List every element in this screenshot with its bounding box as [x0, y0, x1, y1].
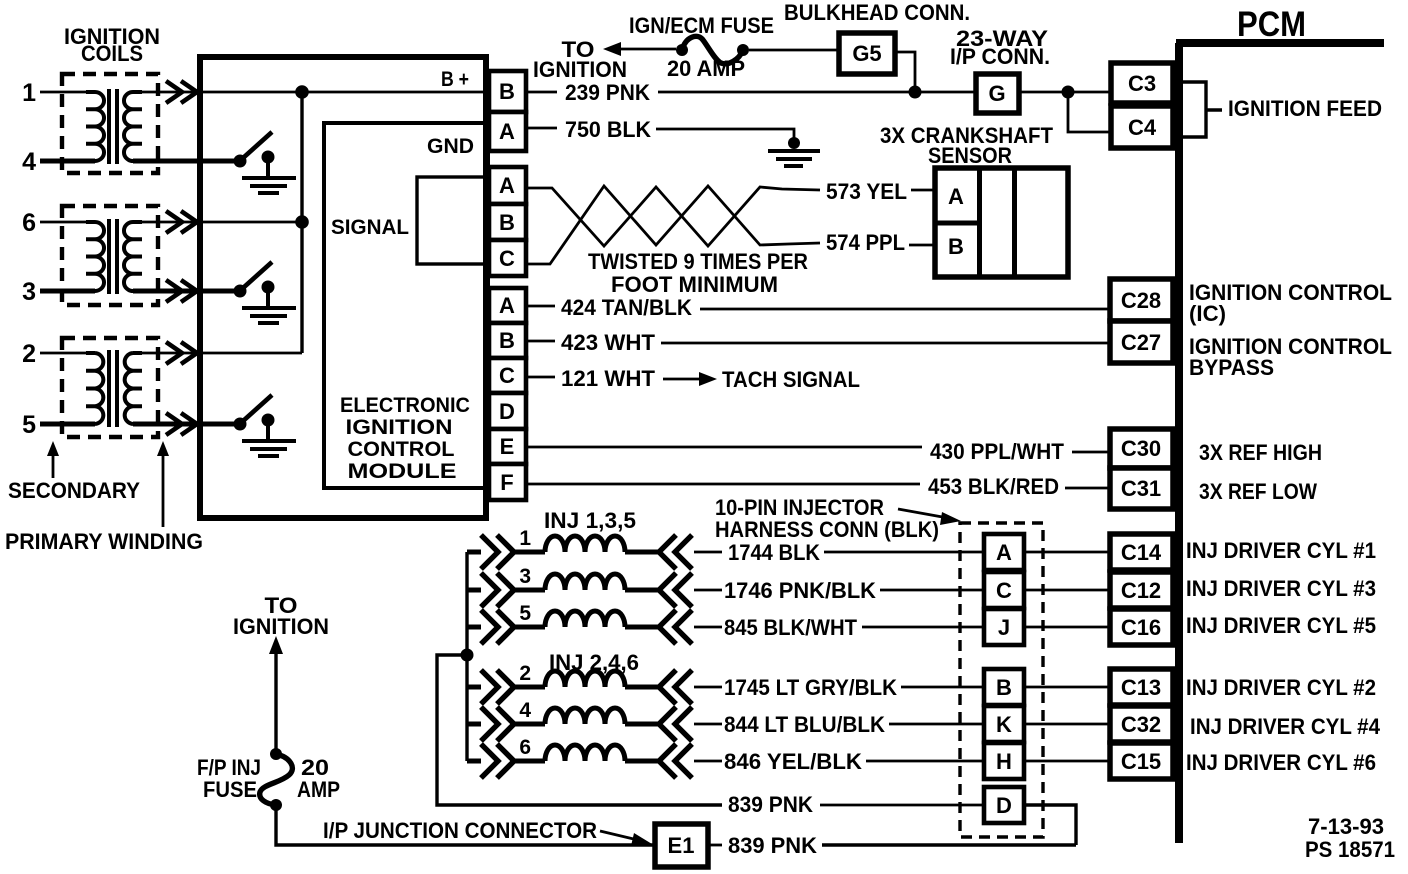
junction dot C3/C4 branch	[1062, 86, 1075, 99]
wire 423 WHT	[526, 341, 1110, 343]
wire 1744 BLK to pin A	[824, 551, 984, 554]
fuse F1 IGN/ECM 20 AMP	[676, 36, 749, 63]
label PRIMARY WINDING with arrow	[5, 441, 203, 554]
twisted pair wire A (573)	[526, 187, 820, 246]
wire 1745 to pin B	[901, 686, 984, 689]
signal sub-box	[417, 177, 488, 264]
harness pin D	[984, 787, 1024, 823]
pin E	[489, 429, 526, 464]
svg-text:INJ DRIVER CYL #5: INJ DRIVER CYL #5	[1186, 613, 1376, 638]
wire coil3 row5	[40, 422, 238, 427]
wire pin B to C13	[1024, 686, 1110, 689]
wire coil2 row3	[40, 289, 238, 294]
injector INJ6	[467, 744, 722, 778]
label TWISTED 9 TIMES PER FOOT MINIMUM	[588, 249, 808, 297]
svg-text:HARNESS CONN (BLK): HARNESS CONN (BLK)	[715, 517, 939, 542]
svg-text:C28: C28	[1121, 288, 1161, 313]
svg-text:7-13-93: 7-13-93	[1308, 814, 1384, 839]
svg-text:3: 3	[22, 278, 36, 306]
svg-text:ELECTRONIC: ELECTRONIC	[340, 394, 470, 417]
label TO IGNITION (top)	[533, 37, 627, 82]
svg-text:C16: C16	[1121, 615, 1161, 640]
wire branch to C4	[1068, 92, 1111, 132]
wire G to C3	[1019, 91, 1111, 94]
svg-text:1744 BLK: 1744 BLK	[728, 540, 820, 565]
terminal C3	[1111, 63, 1173, 103]
svg-text:423 WHT: 423 WHT	[561, 330, 656, 355]
svg-text:SIGNAL: SIGNAL	[331, 216, 409, 239]
wire B+ bus vertical	[300, 92, 303, 353]
svg-text:573 YEL: 573 YEL	[826, 179, 907, 204]
ignition feed bracket	[1175, 82, 1222, 137]
injector INJ5	[467, 610, 722, 644]
svg-text:C27: C27	[1121, 330, 1161, 355]
wire pin D to E1 riser	[822, 805, 1076, 845]
svg-text:839 PNK: 839 PNK	[728, 833, 817, 858]
svg-text:C31: C31	[1121, 476, 1161, 501]
wire 839 PNK to pin D	[820, 804, 984, 807]
wire pin K to C32	[1024, 723, 1110, 726]
chevron row1	[166, 81, 197, 103]
svg-text:1746 PNK/BLK: 1746 PNK/BLK	[724, 578, 876, 603]
injector INJ4	[467, 707, 722, 741]
wire pin C to C12	[1024, 589, 1110, 592]
svg-text:3: 3	[519, 565, 531, 588]
terminal C32	[1110, 706, 1173, 742]
terminal C31	[1110, 468, 1173, 509]
twisted pair wire C (574)	[526, 186, 820, 264]
terminal C15	[1110, 743, 1173, 779]
svg-text:3X REF LOW: 3X REF LOW	[1199, 479, 1317, 504]
pin B (B+)	[489, 71, 526, 112]
harness pin C	[984, 572, 1024, 608]
wire pin A to C14	[1024, 551, 1110, 554]
injector INJ1	[467, 535, 722, 569]
fuse F2 F/P INJ 20 AMP	[260, 748, 293, 811]
svg-text:C15: C15	[1121, 749, 1161, 774]
terminal C4	[1111, 106, 1173, 148]
svg-text:CONTROL: CONTROL	[348, 438, 455, 461]
ground S1	[242, 178, 296, 193]
svg-text:C14: C14	[1121, 540, 1162, 565]
pin C (121)	[489, 358, 526, 393]
svg-text:B: B	[996, 675, 1012, 700]
svg-text:IGNITION FEED: IGNITION FEED	[1228, 96, 1382, 121]
svg-text:MODULE: MODULE	[348, 460, 457, 483]
svg-text:C4: C4	[1128, 115, 1157, 140]
svg-text:2: 2	[519, 662, 531, 685]
svg-text:I/P JUNCTION CONNECTOR: I/P JUNCTION CONNECTOR	[323, 818, 597, 843]
chevron row3	[166, 280, 197, 302]
svg-text:C: C	[499, 363, 515, 388]
wire 239 PNK	[526, 91, 976, 94]
wire 845 to pin J	[862, 626, 984, 629]
crankshaft sensor box	[935, 168, 1068, 277]
wire pin H to C15	[1024, 760, 1110, 763]
svg-text:C12: C12	[1121, 578, 1161, 603]
svg-text:4: 4	[22, 148, 36, 176]
label 20 AMP (F/P)	[297, 755, 340, 802]
injector INJ2	[467, 670, 722, 704]
svg-text:C: C	[996, 578, 1012, 603]
junction dot B+ row1	[295, 85, 309, 99]
svg-text:SECONDARY: SECONDARY	[8, 478, 140, 503]
svg-text:A: A	[499, 119, 515, 144]
chevron row5	[166, 413, 197, 435]
arrow to E1	[600, 831, 652, 846]
label IGNITION COILS	[64, 24, 160, 66]
terminal C30	[1110, 429, 1173, 468]
pin A (GND)	[489, 112, 526, 151]
svg-text:B: B	[499, 210, 515, 235]
svg-text:A: A	[996, 540, 1012, 565]
transformer T3 (coils 2/5)	[62, 338, 158, 437]
svg-text:INJ DRIVER CYL #4: INJ DRIVER CYL #4	[1190, 714, 1381, 739]
svg-text:GND: GND	[427, 135, 474, 158]
harness pin A	[984, 534, 1024, 570]
ground S3	[242, 441, 296, 456]
svg-text:C3: C3	[1128, 71, 1156, 96]
wire 453 BLK/RED	[526, 484, 1110, 488]
label 3X CRANKSHAFT SENSOR	[880, 123, 1054, 168]
svg-text:6: 6	[519, 736, 531, 759]
svg-text:FUSE: FUSE	[203, 777, 257, 802]
svg-text:IGN/ECM FUSE: IGN/ECM FUSE	[629, 13, 774, 38]
svg-text:J: J	[998, 615, 1010, 640]
label 23-WAY I/P CONN.	[950, 26, 1050, 69]
label 10-PIN INJECTOR HARNESS CONN (BLK)	[715, 495, 939, 542]
label ELECTRONIC IGNITION CONTROL MODULE	[340, 394, 470, 483]
svg-text:1: 1	[519, 527, 531, 550]
svg-text:430 PPL/WHT: 430 PPL/WHT	[930, 439, 1065, 464]
svg-text:A: A	[499, 293, 515, 318]
injector bus vertical	[465, 552, 468, 761]
svg-text:844 LT BLU/BLK: 844 LT BLU/BLK	[724, 712, 885, 737]
svg-text:846 YEL/BLK: 846 YEL/BLK	[724, 749, 862, 774]
wire coil1 row1	[40, 91, 488, 94]
svg-text:B: B	[499, 328, 515, 353]
terminal C13	[1110, 669, 1173, 705]
connector G (23-way I/P)	[976, 74, 1019, 113]
terminal C14	[1110, 534, 1173, 570]
svg-text:B: B	[499, 79, 515, 104]
10-pin harness dashed box	[960, 523, 1043, 837]
svg-text:INJ DRIVER CYL #3: INJ DRIVER CYL #3	[1186, 576, 1376, 601]
svg-text:C: C	[499, 246, 515, 271]
svg-text:AMP: AMP	[297, 777, 340, 802]
pin A (signal)	[489, 167, 526, 204]
svg-text:COILS: COILS	[81, 41, 143, 66]
svg-text:1745 LT GRY/BLK: 1745 LT GRY/BLK	[724, 675, 897, 700]
svg-text:TWISTED 9 TIMES PER: TWISTED 9 TIMES PER	[588, 249, 808, 274]
module inner box	[324, 123, 488, 488]
wire 1746 to pin C	[880, 589, 984, 592]
wire pin J to C16	[1024, 626, 1110, 629]
svg-text:C32: C32	[1121, 712, 1161, 737]
svg-text:E1: E1	[668, 833, 695, 858]
svg-text:H: H	[996, 749, 1012, 774]
svg-text:G: G	[988, 81, 1005, 106]
svg-text:F: F	[500, 470, 513, 495]
svg-text:453 BLK/RED: 453 BLK/RED	[928, 474, 1059, 499]
wire E1 to 839 PNK	[708, 844, 722, 847]
injector INJ3	[467, 573, 722, 607]
svg-text:IGNITION: IGNITION	[346, 416, 453, 439]
harness pin B	[984, 669, 1024, 705]
label IGNITION CONTROL (IC)	[1189, 280, 1392, 326]
svg-text:INJ 1,3,5: INJ 1,3,5	[544, 508, 636, 533]
svg-text:K: K	[996, 712, 1012, 737]
wire 121 WHT	[526, 376, 555, 379]
svg-text:PRIMARY WINDING: PRIMARY WINDING	[5, 529, 203, 554]
junction dot B+ row6	[295, 215, 309, 229]
svg-text:B: B	[948, 234, 964, 259]
switch S3 (coil 5)	[234, 395, 275, 441]
transformer T1 (coils 1/4)	[62, 74, 158, 173]
svg-text:IGNITION: IGNITION	[533, 57, 627, 82]
transformer T2 (coils 6/3)	[62, 206, 158, 305]
wire bus to 839 PNK	[437, 655, 722, 805]
svg-text:I/P CONN.: I/P CONN.	[950, 44, 1050, 69]
svg-text:1: 1	[22, 79, 36, 107]
svg-text:PS 18571: PS 18571	[1305, 837, 1395, 862]
wire 573 to sensor A	[911, 189, 935, 192]
svg-text:(IC): (IC)	[1189, 301, 1226, 326]
wire coil3 row2	[40, 352, 302, 355]
harness pin K	[984, 706, 1024, 742]
tach arrow	[663, 372, 717, 386]
svg-text:C13: C13	[1121, 675, 1161, 700]
pin D	[489, 393, 526, 429]
wire 844 to pin K	[889, 723, 984, 726]
svg-text:5: 5	[519, 602, 531, 625]
svg-text:239 PNK: 239 PNK	[565, 80, 650, 105]
wire 846 to pin H	[866, 760, 984, 763]
pin C (signal)	[489, 240, 526, 276]
terminal C12	[1110, 572, 1173, 608]
svg-text:PCM: PCM	[1237, 5, 1306, 44]
svg-text:C30: C30	[1121, 436, 1161, 461]
svg-text:2: 2	[22, 340, 36, 368]
arrow to ignition	[603, 42, 676, 56]
svg-text:845 BLK/WHT: 845 BLK/WHT	[724, 615, 858, 640]
svg-text:424 TAN/BLK: 424 TAN/BLK	[561, 295, 692, 320]
wire 424 TAN/BLK	[526, 306, 1110, 309]
svg-text:A: A	[499, 173, 515, 198]
svg-text:B +: B +	[441, 68, 469, 91]
svg-text:6: 6	[22, 209, 36, 237]
svg-text:839 PNK: 839 PNK	[728, 792, 813, 817]
wire coil2 row6	[40, 221, 302, 224]
label SECONDARY with arrow	[8, 441, 140, 503]
svg-text:E: E	[500, 434, 515, 459]
svg-text:BULKHEAD CONN.: BULKHEAD CONN.	[784, 0, 970, 25]
svg-text:A: A	[948, 184, 964, 209]
svg-text:3X REF HIGH: 3X REF HIGH	[1199, 440, 1322, 465]
svg-text:IGNITION: IGNITION	[233, 614, 329, 639]
wire 430 PPL/WHT	[526, 447, 1110, 452]
terminal C28	[1110, 279, 1173, 321]
svg-text:INJ DRIVER CYL #2: INJ DRIVER CYL #2	[1186, 675, 1376, 700]
wire 574 to sensor B	[909, 244, 935, 247]
wire 750 BLK	[526, 128, 794, 138]
wire coil1 row4	[40, 159, 238, 164]
harness pin J	[984, 609, 1024, 645]
arrow to harness box	[898, 509, 961, 525]
junction connector E1	[655, 824, 708, 867]
svg-text:5: 5	[22, 411, 36, 439]
wire fuse to E1	[276, 805, 655, 845]
chevron row2	[166, 342, 197, 364]
wire fuse to G5	[749, 49, 839, 52]
harness pin H	[984, 743, 1024, 779]
switch S2 (coil 3)	[234, 262, 275, 308]
svg-text:D: D	[996, 793, 1012, 818]
svg-text:4: 4	[519, 699, 531, 722]
svg-text:BYPASS: BYPASS	[1189, 355, 1274, 380]
svg-text:INJ DRIVER CYL #6: INJ DRIVER CYL #6	[1186, 750, 1376, 775]
switch S1 (coil 4)	[234, 132, 275, 178]
label TO IGNITION (bottom)	[233, 593, 329, 639]
label IGNITION CONTROL BYPASS	[1189, 334, 1392, 380]
svg-text:SENSOR: SENSOR	[928, 143, 1012, 168]
pin A (424)	[489, 288, 526, 323]
pin F	[489, 464, 526, 500]
pin B (423)	[489, 323, 526, 358]
svg-text:TACH SIGNAL: TACH SIGNAL	[722, 367, 860, 392]
junction dot injector bus	[461, 649, 474, 662]
connector G5	[839, 33, 895, 74]
ground G1 (750 BLK)	[768, 137, 820, 166]
svg-text:G5: G5	[852, 41, 881, 66]
svg-text:FOOT MINIMUM: FOOT MINIMUM	[611, 272, 778, 297]
ground S2	[242, 308, 296, 323]
PCM boundary line	[1176, 43, 1384, 843]
ignition module outer box	[200, 57, 486, 518]
pin B (signal)	[489, 204, 526, 240]
label F/P INJ FUSE	[197, 755, 261, 802]
svg-text:20 AMP: 20 AMP	[667, 56, 745, 81]
wire G5 down to 239 PNK	[895, 52, 915, 92]
svg-text:D: D	[499, 399, 515, 424]
chevron row6	[166, 211, 197, 233]
svg-text:121 WHT: 121 WHT	[561, 366, 656, 391]
terminal C16	[1110, 609, 1173, 645]
junction dot G5 branch	[909, 86, 922, 99]
arrow up to ignition	[269, 636, 283, 754]
terminal C27	[1110, 321, 1173, 363]
svg-text:750 BLK: 750 BLK	[565, 117, 651, 142]
svg-text:574 PPL: 574 PPL	[826, 230, 905, 255]
svg-text:INJ DRIVER CYL #1: INJ DRIVER CYL #1	[1186, 538, 1376, 563]
